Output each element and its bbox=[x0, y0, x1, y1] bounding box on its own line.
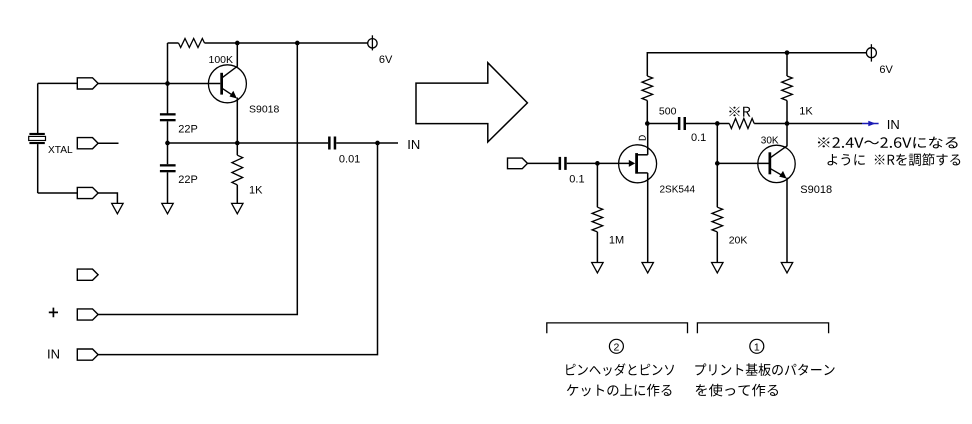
svg-text:500: 500 bbox=[659, 106, 677, 118]
resistor 1M bbox=[596, 163, 598, 207]
power terminal 6V left bbox=[368, 39, 377, 48]
caption1 line2 bbox=[696, 384, 778, 397]
capacitor 0.01 bbox=[328, 137, 398, 150]
circled 1 bbox=[750, 339, 764, 353]
ground under pin 3 bbox=[112, 203, 123, 213]
capacitor 0.1 top bbox=[678, 117, 717, 130]
wire base row bbox=[98, 83, 221, 85]
svg-text:20K: 20K bbox=[729, 235, 748, 247]
svg-text:22P: 22P bbox=[178, 124, 198, 136]
connector input pin bbox=[508, 158, 528, 169]
svg-text:0.1: 0.1 bbox=[691, 132, 706, 144]
svg-text:1K: 1K bbox=[249, 185, 263, 197]
ground under Q4 emitter bbox=[781, 263, 792, 273]
block arrow bbox=[416, 63, 527, 142]
svg-text:1: 1 bbox=[754, 341, 760, 353]
junction dot gate bbox=[595, 161, 600, 166]
wire pin2 stub bbox=[98, 142, 118, 144]
junction dot IN row bbox=[375, 141, 380, 146]
connector pin 5 plus bbox=[77, 309, 98, 320]
bracket 1 group bbox=[697, 323, 828, 333]
resistor 1K right bbox=[786, 53, 788, 76]
resistor 500 bbox=[642, 76, 653, 101]
FET Q3 2SK544 bbox=[597, 124, 656, 263]
connector pin 2 bbox=[77, 138, 98, 149]
svg-text:XTAL: XTAL bbox=[48, 145, 73, 156]
wire left vertical x167 top bbox=[167, 43, 169, 114]
svg-text:6V: 6V bbox=[879, 64, 893, 76]
wire top rail right bbox=[647, 53, 866, 76]
connector pin 3 bbox=[77, 187, 98, 198]
ground under 20K bbox=[712, 263, 723, 273]
capacitor 22P lower bbox=[160, 143, 176, 203]
transistor Q4 S9018 bbox=[758, 124, 795, 263]
junction dot drain row right bbox=[785, 121, 790, 126]
wire IN row bbox=[98, 143, 377, 355]
label ※R bbox=[729, 107, 750, 117]
wire v717 bbox=[716, 124, 718, 164]
label D bbox=[639, 135, 646, 140]
wire xtal top to pin1 bbox=[38, 82, 78, 84]
junction dot base row bbox=[165, 81, 170, 86]
resistor 100K bbox=[179, 39, 205, 48]
wire plus row bbox=[98, 43, 297, 315]
ground under 1M bbox=[592, 263, 603, 273]
svg-text:22P: 22P bbox=[178, 174, 198, 186]
resistor 1K left bbox=[236, 143, 238, 155]
connector pin 4 bbox=[77, 269, 98, 280]
caption1 line1 bbox=[695, 363, 834, 376]
circled 2 bbox=[609, 339, 623, 353]
wire drain row bbox=[647, 123, 678, 125]
svg-text:2: 2 bbox=[613, 341, 619, 353]
svg-text:2SK544: 2SK544 bbox=[660, 185, 696, 196]
svg-text:0.01: 0.01 bbox=[339, 154, 360, 166]
svg-text:1M: 1M bbox=[609, 235, 624, 247]
ground under FET source bbox=[642, 263, 653, 273]
svg-text:0.1: 0.1 bbox=[569, 174, 584, 186]
wire base row right bbox=[717, 162, 768, 164]
wire top rail left bbox=[168, 42, 179, 44]
wire xtal bottom to pin3 bbox=[38, 192, 78, 194]
svg-text:IN: IN bbox=[407, 137, 420, 152]
junction dot mid row emitter bbox=[235, 141, 240, 146]
label plus bbox=[49, 308, 58, 318]
ground under 22P chain bbox=[162, 203, 173, 213]
svg-text:100K: 100K bbox=[209, 54, 234, 66]
capacitor 22P upper bbox=[160, 113, 176, 143]
svg-text:1K: 1K bbox=[799, 106, 813, 118]
svg-text:IN: IN bbox=[887, 117, 900, 132]
wire to IN output bbox=[787, 123, 862, 125]
svg-text:IN: IN bbox=[47, 347, 60, 362]
connector pin 6 IN bbox=[77, 349, 98, 360]
blue IN arrow bbox=[862, 121, 879, 126]
junction dot top collector bbox=[235, 41, 240, 46]
svg-text:6V: 6V bbox=[379, 54, 393, 66]
ground under 1K bbox=[232, 203, 243, 213]
power terminal 6V right bbox=[866, 48, 876, 58]
annotation 2.4V-2.6V bbox=[818, 137, 958, 149]
wire pin3 to ground bbox=[98, 193, 117, 203]
resistor R adjust bbox=[717, 123, 729, 125]
resistor 20K bbox=[716, 163, 718, 207]
transistor Q1 S9018 bbox=[208, 43, 246, 143]
junction dot base row bbox=[715, 161, 720, 166]
bracket 2 group bbox=[547, 323, 688, 333]
wire input to cap bbox=[528, 162, 559, 164]
wire mid row bbox=[168, 142, 329, 144]
capacitor 0.1 input bbox=[559, 157, 598, 170]
svg-text:S9018: S9018 bbox=[249, 104, 280, 116]
junction dot top v297 bbox=[295, 41, 300, 46]
connector pin 1 bbox=[77, 78, 98, 89]
junction dot mid row left bbox=[165, 141, 170, 146]
annotation adjust R bbox=[828, 153, 961, 166]
crystal X1 XTAL bbox=[29, 83, 46, 193]
junction dot drain row left bbox=[645, 121, 650, 126]
junction dot top right bbox=[785, 50, 790, 55]
junction dot drain row mid bbox=[715, 121, 720, 126]
svg-text:S9018: S9018 bbox=[800, 184, 832, 196]
caption2 line2 bbox=[567, 384, 672, 397]
caption2 line1 bbox=[566, 363, 674, 376]
